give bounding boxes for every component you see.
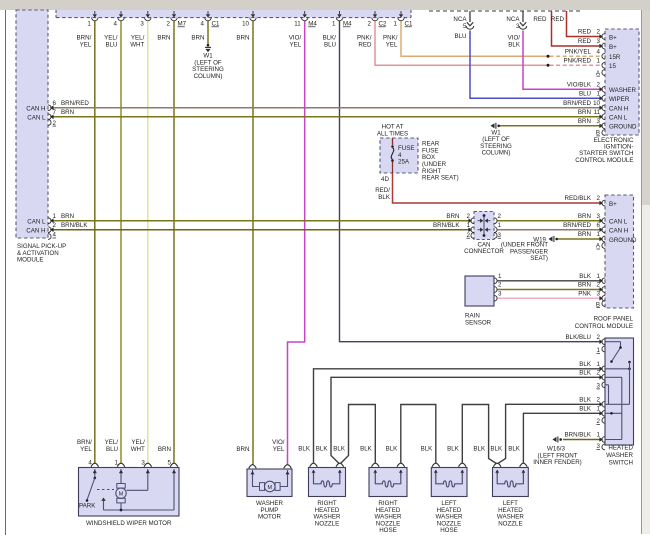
svg-text:CONTROL MODULE: CONTROL MODULE: [575, 323, 633, 330]
svg-text:RED: RED: [533, 16, 547, 23]
washer pump pin connectors: [249, 465, 292, 475]
top-right off-page module dashed edge: [429, 10, 580, 12]
EIS module left wire labels: [563, 29, 601, 137]
svg-text:5: 5: [168, 460, 172, 467]
svg-text:11: 11: [294, 21, 301, 28]
heated washer switch internal contacts: [605, 342, 631, 440]
svg-text:RED: RED: [358, 41, 372, 48]
svg-text:1: 1: [498, 273, 502, 280]
svg-text:BLK: BLK: [333, 445, 346, 452]
wire BRN from top pin 4 C1 to ground W1: [207, 21, 209, 45]
svg-text:BRN: BRN: [61, 109, 74, 116]
svg-text:YEL: YEL: [386, 41, 398, 48]
svg-text:MOTOR: MOTOR: [258, 514, 281, 521]
wire BLK: switch pin 2 lower to nozzle 4 left pin: [498, 404, 602, 463]
svg-text:BRN: BRN: [157, 35, 170, 42]
svg-text:2: 2: [597, 282, 601, 289]
svg-text:1: 1: [115, 460, 119, 467]
svg-text:INNER FENDER): INNER FENDER): [533, 459, 581, 466]
signal module pin labels: [53, 100, 90, 239]
svg-text:B+: B+: [609, 44, 617, 51]
svg-text:2: 2: [498, 282, 502, 289]
svg-text:BLK: BLK: [421, 445, 434, 452]
svg-text:BRN: BRN: [61, 213, 74, 220]
svg-text:B+: B+: [609, 34, 617, 41]
NCA labels: [453, 16, 520, 48]
svg-text:1: 1: [332, 21, 336, 28]
svg-text:SEAT): SEAT): [530, 255, 548, 262]
svg-text:3: 3: [140, 21, 144, 28]
svg-text:CAN H: CAN H: [26, 227, 45, 234]
wire BLK: nozzle 1 right pin to hose nozzle 2 left pin: [340, 405, 375, 464]
wire BLK: nozzle 3 right pin to nozzle 4 left pin: [462, 405, 496, 464]
svg-text:10: 10: [593, 100, 600, 107]
svg-text:1: 1: [53, 213, 57, 220]
svg-text:CAN L: CAN L: [609, 115, 628, 122]
roof panel module left wire labels: [563, 195, 601, 308]
svg-text:BLK: BLK: [473, 445, 486, 452]
svg-text:BLK: BLK: [508, 41, 521, 48]
svg-text:ALL TIMES: ALL TIMES: [377, 130, 408, 137]
svg-text:1: 1: [467, 222, 471, 229]
wire PNK: rain sensor pin 3 to roof panel pin 3: [497, 297, 602, 299]
svg-text:4: 4: [114, 21, 118, 28]
CAN connector pin bumps: [468, 218, 497, 239]
wire BRN/BLK: ground W16/3 to switch pin 1: [563, 439, 602, 441]
svg-text:BLK: BLK: [579, 273, 592, 280]
svg-text:WINDSHIELD WIPER MOTOR: WINDSHIELD WIPER MOTOR: [86, 520, 172, 527]
svg-text:BLK: BLK: [490, 445, 503, 452]
svg-text:BRN/RED: BRN/RED: [563, 100, 591, 107]
top band pin numbers and connector names: [87, 21, 413, 28]
svg-text:3: 3: [141, 460, 145, 467]
roof panel module pin connectors: [599, 200, 605, 306]
svg-text:BLU: BLU: [106, 446, 118, 453]
svg-text:1: 1: [597, 361, 601, 368]
wire BRN/RED: CAN connector to roof panel CAN H pin 6: [497, 229, 602, 231]
splice dot PNK/RED: [547, 64, 550, 67]
left page border line: [5, 10, 7, 535]
svg-text:3: 3: [498, 291, 502, 298]
wire PNK/YEL from top pin 1 C1: [401, 21, 547, 57]
right heated washer nozzle heater element: [314, 470, 340, 487]
wire BRN/BLK CAN H lower: signal module pin 2 to CAN connector: [52, 229, 471, 231]
svg-text:BRN: BRN: [191, 35, 204, 42]
wire BLK: rain sensor pin 1 to roof panel pin 1: [497, 280, 602, 282]
svg-text:WHT: WHT: [130, 41, 144, 48]
svg-text:4D: 4D: [381, 176, 389, 183]
wiper motor internals: park switch and motor M: [79, 469, 176, 511]
svg-text:YEL: YEL: [289, 41, 301, 48]
svg-text:BRN: BRN: [158, 446, 171, 453]
svg-text:BRN: BRN: [578, 109, 591, 116]
svg-text:CAN L: CAN L: [27, 218, 46, 225]
nozzle box: right heated washer nozzle: [309, 468, 346, 528]
wire RED left to B+ pin 3: [552, 11, 603, 46]
svg-text:WASHER: WASHER: [606, 452, 633, 459]
svg-text:HEATED: HEATED: [608, 445, 633, 452]
svg-text:SWITCH: SWITCH: [609, 459, 633, 466]
svg-text:2: 2: [597, 397, 601, 404]
svg-text:RED: RED: [551, 16, 565, 23]
svg-text:BLU: BLU: [454, 33, 466, 40]
svg-text:WIPER: WIPER: [609, 96, 630, 103]
svg-text:PNK/RED: PNK/RED: [563, 58, 591, 65]
wire RED/BLK from fuse 4 to roof panel B+ pin 2: [393, 173, 603, 203]
svg-text:CAN L: CAN L: [27, 115, 46, 122]
svg-text:RED: RED: [578, 29, 592, 36]
svg-text:SENSOR: SENSOR: [465, 320, 492, 327]
svg-text:1: 1: [597, 273, 601, 280]
svg-text:NCA: NCA: [506, 16, 520, 23]
fuse F4 25A element: [391, 138, 394, 173]
wire BLK/BLU from top pin 1 M4 to heated washer switch pin 2: [340, 21, 603, 342]
svg-text:BLK/BLU: BLK/BLU: [566, 334, 591, 341]
connector: CAN connector: [464, 212, 504, 256]
fuse labels 4D RED/BLK: [375, 176, 391, 201]
svg-text:COLUMN): COLUMN): [482, 150, 511, 157]
svg-text:4: 4: [201, 21, 205, 28]
svg-text:HOSE: HOSE: [379, 527, 397, 534]
svg-text:1: 1: [87, 21, 91, 28]
sensor: rain sensor: [465, 276, 494, 327]
heated washer switch left labels: [565, 334, 601, 450]
svg-text:BRN/BLK: BRN/BLK: [433, 222, 460, 229]
wire BRN from top pin 2 M7 to wiper motor pin 5: [173, 21, 175, 464]
heated washer switch pin connectors: [599, 339, 605, 450]
wire BRN CAN L lower: signal module pin 1 to CAN connector: [52, 220, 471, 222]
svg-text:BLK: BLK: [316, 445, 329, 452]
svg-text:RED/BLK: RED/BLK: [565, 195, 592, 202]
wire PNK/RED dashed to pin 1 (15): [550, 64, 603, 66]
svg-text:BLK: BLK: [298, 445, 311, 452]
svg-text:BLU: BLU: [579, 91, 591, 98]
svg-text:PARK: PARK: [79, 503, 96, 510]
svg-text:2: 2: [597, 370, 601, 377]
svg-text:2: 2: [597, 82, 601, 89]
wiper motor pin numbers: [88, 460, 171, 467]
svg-text:3: 3: [597, 291, 601, 298]
wire BLK: switch pin 1 to right heated washer nozzle left pin: [314, 369, 603, 464]
rain sensor pin connectors: [494, 278, 497, 301]
svg-text:M: M: [119, 492, 124, 498]
top band pin connectors: [92, 11, 405, 21]
scrollbar border line: [641, 10, 643, 534]
svg-text:PNK/YEL: PNK/YEL: [565, 49, 592, 56]
svg-text:PNK: PNK: [578, 291, 592, 298]
fuse box: rear fuse box (under right rear seat): [377, 124, 459, 182]
svg-text:BLK: BLK: [508, 445, 521, 452]
svg-text:2: 2: [467, 213, 471, 220]
svg-text:2: 2: [368, 21, 372, 28]
EIS control module pin connectors: [599, 34, 605, 136]
ground W16/3 (left front inner fender): [533, 437, 581, 467]
svg-text:2: 2: [498, 213, 502, 220]
right scrollbar track: [642, 10, 650, 534]
motor box: washer pump motor: [247, 469, 292, 521]
wiper motor pin connectors: [91, 463, 178, 473]
inline connector on NCA wire pin 3: [519, 22, 526, 29]
inline connector on NCA wire pin 5: [466, 22, 473, 29]
module: roof panel control module: [575, 195, 637, 330]
splice dot PNK/YEL: [547, 55, 550, 58]
wire RED right to B+ pin 2: [567, 11, 603, 37]
svg-text:BRN/BLK: BRN/BLK: [565, 432, 592, 439]
bottom wire color labels: [77, 439, 521, 453]
svg-text:4: 4: [597, 49, 601, 56]
svg-text:GROUND: GROUND: [609, 237, 637, 244]
svg-text:CONNECTOR: CONNECTOR: [464, 248, 504, 255]
switch: heated washer switch box: [605, 338, 634, 466]
wire BRN: rain sensor pin 2 to roof panel pin 2: [497, 289, 602, 291]
svg-text:RED: RED: [578, 38, 592, 45]
svg-text:BRN/RED: BRN/RED: [563, 222, 591, 229]
svg-text:BRN: BRN: [578, 213, 591, 220]
ground W1 (left of steering column) right: [480, 123, 512, 157]
svg-text:YEL: YEL: [80, 446, 92, 453]
svg-text:BRN: BRN: [236, 446, 249, 453]
wire BLK: switch pin 2 to right heated washer nozzle right pin: [331, 377, 602, 463]
svg-text:CAN H: CAN H: [26, 106, 45, 113]
left heated washer nozzle heater element: [497, 470, 523, 487]
svg-text:BRN: BRN: [578, 282, 591, 289]
wire PNK/YEL dashed to pin 4 (15R): [550, 55, 603, 57]
svg-text:3: 3: [516, 23, 520, 30]
svg-text:BRN: BRN: [578, 231, 591, 238]
svg-text:BRN: BRN: [578, 118, 591, 125]
wire BRN CAN L upper: signal module pin 7 to EIS pin 11: [52, 116, 602, 118]
svg-text:BLK: BLK: [579, 370, 592, 377]
svg-text:GROUND: GROUND: [609, 124, 637, 131]
svg-text:15: 15: [609, 63, 616, 70]
svg-text:1: 1: [394, 21, 398, 28]
svg-text:BLK: BLK: [447, 445, 460, 452]
nozzle box: left heated washer nozzle hose: [431, 468, 467, 535]
svg-text:BLK: BLK: [579, 397, 592, 404]
svg-text:1: 1: [597, 406, 601, 413]
wire PNK/RED from top pin 2 C2: [375, 21, 547, 66]
svg-text:10: 10: [242, 21, 249, 28]
svg-text:6: 6: [597, 222, 601, 229]
nozzle box: right heated washer nozzle hose: [369, 468, 407, 535]
svg-text:BLK: BLK: [386, 445, 399, 452]
left heated washer nozzle hose heater element: [436, 470, 463, 487]
svg-text:2: 2: [597, 195, 601, 202]
module: top band (bottom edge of off-page module): [56, 10, 411, 18]
svg-text:WHT: WHT: [131, 446, 145, 453]
svg-text:B+: B+: [609, 201, 617, 208]
wire BRN: CAN connector to roof panel CAN L pin 3: [497, 220, 602, 222]
svg-text:VIO/BLK: VIO/BLK: [567, 82, 592, 89]
svg-text:HOSE: HOSE: [440, 527, 458, 534]
right heated washer nozzle hose heater element: [375, 470, 401, 487]
svg-text:CONTROL MODULE: CONTROL MODULE: [575, 157, 633, 164]
svg-text:YEL: YEL: [273, 446, 285, 453]
svg-text:NCA: NCA: [453, 16, 467, 23]
top gray strip: [0, 0, 650, 10]
svg-text:5: 5: [463, 23, 467, 30]
svg-text:BLK: BLK: [579, 361, 592, 368]
wire BRN from top pin 10 to washer pump motor: [252, 21, 254, 465]
svg-text:CAN H: CAN H: [609, 228, 628, 235]
svg-text:3: 3: [597, 118, 601, 125]
svg-text:7: 7: [53, 109, 57, 116]
svg-text:YEL: YEL: [80, 41, 92, 48]
svg-text:BRN: BRN: [236, 35, 249, 42]
top wire color labels: [77, 35, 399, 49]
svg-text:3: 3: [597, 38, 601, 45]
nozzle box: left heated washer nozzle: [493, 468, 529, 528]
wire BRN ground: W1 to EIS GROUND pin 3: [500, 125, 602, 127]
ground W19 (under front passenger seat): [501, 236, 558, 262]
signal module pin connectors: [48, 105, 54, 240]
svg-text:1: 1: [597, 231, 601, 238]
ground W1 (left of steering column) top: [192, 44, 224, 80]
svg-text:15R: 15R: [609, 54, 621, 61]
svg-text:1: 1: [597, 58, 601, 65]
svg-text:BLK: BLK: [378, 194, 391, 201]
svg-text:WASHER: WASHER: [609, 87, 636, 94]
svg-text:CAN L: CAN L: [609, 219, 628, 226]
wire BLK: nozzle 4 right pin to switch pin 1 lower: [523, 413, 602, 463]
svg-text:NOZZLE: NOZZLE: [315, 520, 339, 527]
wire BRN/YEL from top pin 1 to wiper motor pin 4: [94, 21, 96, 464]
svg-text:COLUMN): COLUMN): [194, 73, 223, 80]
svg-text:25A: 25A: [398, 159, 410, 166]
right scrollbar thumb: [642, 10, 650, 205]
svg-text:2: 2: [597, 334, 601, 341]
washer pump motor internals: [251, 470, 290, 492]
wire BRN/RED CAN H upper: signal module pin 6 to EIS pin 10: [52, 107, 602, 109]
svg-text:ROOF PANEL: ROOF PANEL: [594, 316, 634, 323]
svg-text:BLK: BLK: [360, 445, 373, 452]
svg-text:1: 1: [597, 432, 601, 439]
svg-text:1: 1: [498, 222, 502, 229]
svg-text:2: 2: [167, 21, 171, 28]
wire BRN: ground W19 to roof panel GROUND pin 1: [558, 238, 602, 240]
CAN connector pin labels: [433, 213, 501, 239]
svg-text:BLU: BLU: [105, 41, 117, 48]
wire NCA/VIO-BLK to washer pin 2: [522, 11, 524, 22]
svg-text:M: M: [268, 485, 273, 491]
svg-text:11: 11: [594, 109, 601, 116]
wire YEL/WHT from top pin 3 to wiper motor pin 3: [147, 21, 149, 464]
wire VIO/YEL from top pin 11 M4 to washer pump motor: [288, 21, 305, 465]
svg-text:2: 2: [53, 222, 57, 229]
svg-text:BLK: BLK: [579, 406, 592, 413]
svg-text:6: 6: [53, 100, 57, 107]
nozzle pin connectors: [310, 463, 528, 474]
svg-text:BRN/BLK: BRN/BLK: [61, 222, 88, 229]
svg-text:4: 4: [88, 460, 92, 467]
svg-text:REAR SEAT): REAR SEAT): [422, 175, 459, 182]
svg-text:BRN/RED: BRN/RED: [61, 100, 89, 107]
svg-text:BLU: BLU: [324, 41, 336, 48]
module: signal pick-up & activation module (left, partial): [16, 10, 66, 264]
wire NCA/BLU to wiper pin 1: [469, 11, 471, 22]
svg-text:CAN H: CAN H: [609, 106, 628, 113]
svg-text:1: 1: [597, 91, 601, 98]
module: electronic ignition-starter switch control module: [575, 29, 639, 164]
wire BLK: nozzle 2 right pin to nozzle 3 left pin: [401, 405, 436, 464]
wire YEL/BLU from top pin 4 to wiper motor pin 1: [120, 21, 122, 464]
svg-text:BRN: BRN: [446, 213, 459, 220]
rain sensor pin numbers: [498, 273, 502, 298]
svg-text:MODULE: MODULE: [17, 257, 43, 264]
motor box: windshield wiper motor: [79, 468, 180, 528]
svg-text:2: 2: [597, 29, 601, 36]
svg-text:3: 3: [597, 213, 601, 220]
svg-text:NOZZLE: NOZZLE: [498, 520, 522, 527]
